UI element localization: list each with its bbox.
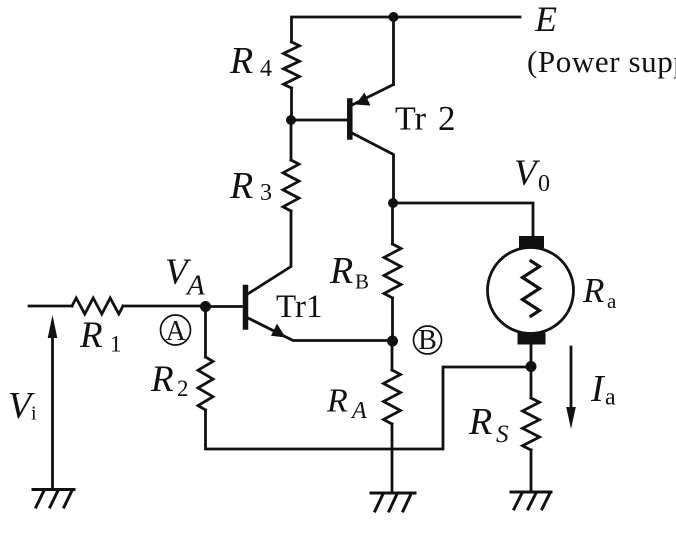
wire: supply rail E top bbox=[292, 17, 521, 42]
svg-text:V: V bbox=[514, 153, 541, 194]
transistor Tr2 emitter (arrow to bar, PNP) bbox=[352, 85, 394, 106]
transistor Tr2 base bar bbox=[347, 101, 353, 137]
wire: motor to RS node bbox=[530, 344, 533, 366]
voltage arrow Vi bbox=[51, 334, 54, 487]
label Ra bbox=[582, 271, 617, 313]
wire: V0 node to motor bbox=[393, 203, 533, 237]
node label: circled B bbox=[414, 326, 442, 354]
svg-text:a: a bbox=[605, 385, 616, 411]
svg-text:(Power supply): (Power supply) bbox=[527, 44, 676, 79]
svg-text:1: 1 bbox=[110, 332, 122, 357]
svg-text:A: A bbox=[185, 270, 205, 302]
label Tr1 bbox=[276, 289, 323, 325]
svg-text:B: B bbox=[355, 270, 369, 294]
svg-text:R: R bbox=[150, 359, 174, 400]
resistor RS bbox=[523, 398, 540, 450]
label R1 bbox=[79, 315, 122, 357]
wire: R4 bottom to junction bbox=[290, 88, 293, 120]
wire: node A down to R2 bbox=[204, 307, 207, 358]
svg-text:a: a bbox=[607, 289, 617, 313]
resistor RA bbox=[384, 370, 401, 424]
label VA bbox=[165, 252, 205, 302]
svg-text:R: R bbox=[326, 383, 348, 420]
svg-text:i: i bbox=[31, 403, 37, 425]
wire: R3 top from junction bbox=[290, 120, 293, 160]
wire: R1 to node A bbox=[123, 305, 206, 308]
motor top brush bbox=[519, 236, 544, 248]
resistor R4 bbox=[284, 42, 300, 88]
wire: base wire to Tr2 bbox=[291, 119, 347, 122]
svg-text:S: S bbox=[496, 421, 509, 448]
svg-text:R: R bbox=[229, 165, 253, 207]
svg-text:R: R bbox=[79, 315, 103, 356]
node: RS top junction dot bbox=[526, 361, 537, 372]
label V0 bbox=[514, 153, 550, 197]
wire: RS node down bbox=[530, 366, 533, 398]
transistor Tr1 base bar bbox=[243, 288, 249, 328]
svg-text:A: A bbox=[166, 316, 187, 347]
wire: RS bottom to ground bbox=[530, 450, 533, 491]
resistor R1 bbox=[72, 298, 123, 314]
wire: R2 bottom to feedback rail bbox=[206, 367, 530, 449]
node: junction dot R4/R3/base bbox=[286, 115, 296, 125]
wire: Tr2 emitter to supply bbox=[392, 17, 395, 85]
svg-text:B: B bbox=[418, 325, 437, 356]
label Ia bbox=[590, 368, 616, 411]
label E bbox=[534, 0, 557, 39]
svg-text:0: 0 bbox=[538, 171, 550, 197]
label Vi bbox=[8, 385, 37, 427]
svg-text:R: R bbox=[582, 271, 604, 310]
svg-text:3: 3 bbox=[260, 180, 272, 206]
wire: R3 bottom to Tr1 collector bbox=[248, 211, 291, 294]
svg-text:R: R bbox=[329, 250, 353, 292]
wire: RA bottom to ground bbox=[391, 424, 394, 493]
svg-text:E: E bbox=[534, 0, 557, 39]
svg-text:R: R bbox=[468, 401, 492, 443]
svg-text:A: A bbox=[350, 398, 367, 424]
svg-text:4: 4 bbox=[260, 56, 272, 82]
node: junction dot at E rail bbox=[389, 12, 399, 22]
ground (input, left) bbox=[33, 490, 74, 508]
wire: input wire left bbox=[29, 305, 72, 308]
wire: node B to RA to ground bbox=[391, 341, 394, 370]
label R3 bbox=[229, 165, 272, 207]
motor internal resistance squiggle bbox=[523, 261, 540, 316]
transistor Tr2 collector bbox=[352, 133, 394, 203]
label R2 bbox=[150, 359, 189, 401]
svg-text:R: R bbox=[229, 40, 253, 82]
resistor R2 bbox=[198, 357, 213, 410]
motor armature Ra (circle) bbox=[488, 248, 574, 334]
label RA bbox=[326, 383, 367, 425]
svg-text:Tr1: Tr1 bbox=[276, 289, 323, 325]
node A dot bbox=[200, 301, 211, 312]
label R4 bbox=[229, 40, 272, 82]
node label: circled A bbox=[161, 315, 191, 345]
ground (right) bbox=[511, 492, 551, 509]
node: node B dot bbox=[387, 336, 398, 347]
resistor R3 bbox=[283, 160, 299, 211]
svg-text:I: I bbox=[590, 368, 606, 410]
resistor RB bbox=[384, 244, 401, 298]
svg-text:Tr: Tr bbox=[395, 101, 427, 138]
label RS bbox=[468, 401, 509, 448]
label power supply caption bbox=[527, 44, 676, 79]
ground (middle) bbox=[371, 493, 415, 511]
wire: base wire node A to Tr1 bbox=[206, 305, 244, 308]
transistor Tr1 emitter (arrow out, NPN) bbox=[248, 318, 393, 341]
motor bottom brush bbox=[518, 332, 546, 345]
svg-text:2: 2 bbox=[177, 376, 189, 401]
label Tr2 bbox=[395, 99, 456, 138]
wire: RB top bbox=[391, 203, 394, 244]
current arrow Ia bbox=[570, 347, 573, 411]
node: V0 junction dot bbox=[388, 198, 398, 208]
wire: RB bottom to node B bbox=[391, 298, 394, 341]
label RB bbox=[329, 250, 369, 294]
svg-text:2: 2 bbox=[438, 99, 456, 138]
